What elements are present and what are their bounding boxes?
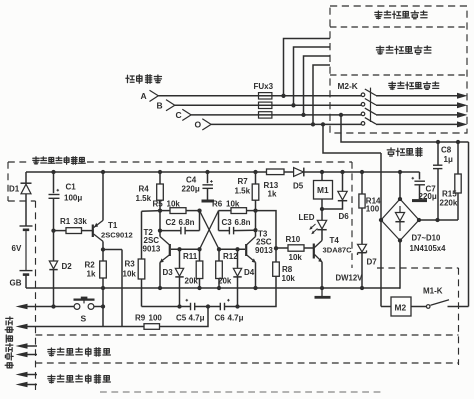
svg-text:C8: C8 xyxy=(441,146,452,155)
label T3 9013 xyxy=(255,246,273,255)
label T1 xyxy=(108,221,118,230)
label R10 value xyxy=(289,253,303,262)
wire feed right edge down xyxy=(468,142,470,307)
label C6 xyxy=(215,313,226,322)
label T1 type xyxy=(101,231,133,240)
label T3 xyxy=(258,230,268,239)
switch M2-K pole O xyxy=(361,118,376,126)
junction dot R6/R7 node xyxy=(253,208,257,212)
node O neutral chevron xyxy=(195,119,212,130)
svg-text:C5: C5 xyxy=(176,313,187,322)
label C8 xyxy=(441,146,452,155)
svg-text:R15: R15 xyxy=(442,190,457,199)
wire riser A to unit2 xyxy=(284,39,331,96)
svg-text:R10: R10 xyxy=(286,235,301,244)
label R11 value xyxy=(185,277,199,286)
label R7 value xyxy=(235,187,251,196)
node A terminal chevron xyxy=(141,90,159,101)
label 6V xyxy=(12,244,22,253)
svg-text:R7: R7 xyxy=(238,177,249,186)
pushbutton S xyxy=(74,297,95,310)
arrow out A xyxy=(457,93,468,99)
label GB xyxy=(10,279,22,288)
unit2 dashed top line xyxy=(36,334,459,336)
svg-text:R5: R5 xyxy=(153,199,164,208)
junction dot T3 base/D4 xyxy=(235,247,239,251)
bridge inner diode xyxy=(395,206,404,231)
capacitor C3 coupling xyxy=(219,211,256,235)
transistor T4 3DA87C xyxy=(314,241,323,289)
arrow out B xyxy=(457,102,468,108)
label R13 value xyxy=(268,190,277,199)
label D1 xyxy=(9,185,20,194)
label C7 xyxy=(426,185,437,194)
svg-text:1k: 1k xyxy=(268,190,277,199)
junction dot M1 top xyxy=(320,170,324,174)
junction dot C1 top xyxy=(51,170,55,174)
label D5 xyxy=(293,181,304,190)
junction dot T1 emitter rail xyxy=(101,170,105,174)
diode D5 series xyxy=(294,168,304,177)
resistor R1 base xyxy=(54,228,93,234)
svg-text:T4: T4 xyxy=(330,236,340,245)
label S xyxy=(81,314,87,324)
junction dot bridge rail xyxy=(398,170,402,174)
label T4 type xyxy=(323,245,353,254)
wire phase A xyxy=(158,95,457,97)
unit1 dashed top edge xyxy=(87,161,352,163)
label C7 value xyxy=(419,192,437,201)
junction dot R15 top xyxy=(456,140,460,144)
wire riser C to unit2 xyxy=(304,56,331,115)
capacitor C2 coupling xyxy=(160,211,200,235)
arrow to unit3 b xyxy=(16,382,38,388)
junction dot D6 top xyxy=(340,170,344,174)
LED emission arrows xyxy=(309,224,317,234)
svg-text:10k: 10k xyxy=(289,253,303,262)
label R14 value xyxy=(366,205,380,214)
switch M2-K pole A xyxy=(361,89,376,97)
svg-text:10k: 10k xyxy=(282,274,296,283)
unit3 dashed bottom line xyxy=(100,391,384,393)
label R8 xyxy=(282,265,293,274)
label C4 value xyxy=(182,185,200,194)
resistor R10 base xyxy=(276,245,314,251)
wire riser O to unit2 xyxy=(313,65,330,124)
wire bridge bottom to ground rail xyxy=(399,241,400,289)
transistor T2 2SC9013 xyxy=(160,237,200,289)
wire M2 to M1-K xyxy=(411,306,426,308)
junction dot D3 bottom xyxy=(177,304,181,308)
svg-text:D3: D3 xyxy=(163,268,174,277)
label second control unit 第二控制单元 xyxy=(376,46,430,54)
divider unit2/unit1 dashed xyxy=(330,74,467,76)
junction dot C xyxy=(301,113,305,117)
junction dot R7 top xyxy=(253,170,257,174)
wire cross-couple N2 to T2 base xyxy=(200,211,219,250)
resistor R14 xyxy=(359,172,365,244)
vertical label timing controller 接时间控制器 xyxy=(5,317,13,368)
label R5 xyxy=(153,199,164,208)
capacitor C8 branch xyxy=(433,142,442,220)
label D2 xyxy=(62,262,73,271)
junction dot T2 base/D3 xyxy=(177,247,181,251)
wire S-column down xyxy=(121,250,123,327)
resistor R12 xyxy=(216,249,223,288)
junction dot C8 bottom xyxy=(435,218,439,222)
label first control unit 第一控制单元 xyxy=(389,82,439,90)
diode D3 xyxy=(175,249,183,306)
transistor T1 2SC9012 xyxy=(93,172,103,250)
label first unit circuit 第一单元电路图 xyxy=(33,157,85,165)
wire O feed vertical xyxy=(380,153,382,307)
label M1-K xyxy=(423,287,443,296)
label T4 xyxy=(330,236,340,245)
label R8 value xyxy=(282,274,296,283)
junction dot C1/R1/D2 node xyxy=(51,228,55,232)
label T2 xyxy=(144,228,154,237)
label R1 xyxy=(60,217,71,226)
wire S right to column xyxy=(94,306,103,308)
label FUx3 xyxy=(254,82,274,91)
switch M2-K pole B xyxy=(361,99,376,107)
wire C5C6 mid xyxy=(195,306,221,308)
junction dot S column xyxy=(101,304,105,308)
fuse FU phase A xyxy=(259,93,272,99)
svg-text:6V: 6V xyxy=(12,244,22,253)
label M2-K xyxy=(338,81,358,91)
svg-text:220k: 220k xyxy=(440,199,458,208)
svg-text:C: C xyxy=(176,110,182,120)
label C1 xyxy=(66,183,77,192)
junction dot R14 top xyxy=(360,170,364,174)
svg-text:6.8n: 6.8n xyxy=(179,218,195,227)
junction dot C2 left node xyxy=(158,228,162,232)
unit boxes dashed left edge xyxy=(35,201,37,390)
svg-text:1k: 1k xyxy=(87,270,96,279)
label R14 xyxy=(366,197,381,206)
junction dot O riser xyxy=(311,122,315,126)
junction dot D4 bottom xyxy=(235,304,239,308)
label R7 xyxy=(238,177,249,186)
svg-text:100: 100 xyxy=(149,313,163,322)
svg-text:R12: R12 xyxy=(223,252,238,261)
capacitor C1 xyxy=(49,172,60,231)
junction dot C feed xyxy=(339,113,343,117)
label R13 xyxy=(264,181,279,190)
label DW12V xyxy=(336,273,364,282)
svg-text:10k: 10k xyxy=(167,199,181,208)
svg-text:D7~D10: D7~D10 xyxy=(412,234,441,243)
relay coil M2 box xyxy=(391,297,411,316)
label LED xyxy=(299,213,315,222)
svg-text:R4: R4 xyxy=(139,185,150,194)
junction dot T1 collector xyxy=(101,247,105,251)
resistor R15 xyxy=(455,142,461,220)
zener diode D7 DW12V xyxy=(358,244,367,288)
fuse FU phase C xyxy=(259,112,272,118)
ground bar below C7 xyxy=(412,199,427,202)
label C6 value xyxy=(228,313,244,322)
right dashed edge lower xyxy=(458,268,460,365)
wire neutral O xyxy=(211,123,457,125)
resistor R13 series xyxy=(267,169,285,175)
resistor R6 xyxy=(219,208,256,214)
svg-text:4.7μ: 4.7μ xyxy=(228,313,244,322)
junction dot rail T3e xyxy=(253,286,257,290)
label R11 xyxy=(183,252,198,261)
label C5 value xyxy=(189,313,205,322)
wire T1 collector to S-column xyxy=(103,249,122,251)
unit1 dashed top-left segment xyxy=(8,161,30,163)
junction dot N4 R12 top xyxy=(217,247,221,251)
control units dashed box xyxy=(330,6,467,133)
wire phase B xyxy=(175,104,458,106)
svg-text:S: S xyxy=(81,314,87,324)
label R10 xyxy=(286,235,301,244)
diode D2 xyxy=(49,231,57,307)
label T2 9013 xyxy=(143,245,161,254)
junction dot R5 right node N1 xyxy=(197,208,201,212)
svg-text:C3: C3 xyxy=(222,218,233,227)
wire bridge AC2 node xyxy=(419,219,458,221)
resistor R2 xyxy=(100,250,107,289)
diode D4 xyxy=(233,249,241,306)
label third unit circuit 第三单元电路图 xyxy=(48,375,110,383)
svg-text:4.7μ: 4.7μ xyxy=(189,313,205,322)
wire R2/S column xyxy=(102,288,104,327)
arrow to unit2 a xyxy=(16,343,38,349)
svg-text:100μ: 100μ xyxy=(64,194,82,203)
svg-text:10k: 10k xyxy=(123,270,137,279)
label C2 xyxy=(166,218,177,227)
svg-text:R2: R2 xyxy=(85,261,96,270)
wire C5C6 right to R8 xyxy=(225,276,277,306)
label R2 xyxy=(85,261,96,270)
unit1 dashed left jog xyxy=(8,200,36,202)
svg-text:D5: D5 xyxy=(293,181,304,190)
svg-text:D1: D1 xyxy=(9,185,20,194)
svg-text:20k: 20k xyxy=(185,277,199,286)
label C3 value xyxy=(235,218,251,227)
resistor R8 xyxy=(273,248,280,276)
junction dot C8 top xyxy=(436,140,440,144)
ground symbol at T4 emitter xyxy=(315,286,331,297)
relay coil M1 box xyxy=(314,172,333,209)
svg-text:20k: 20k xyxy=(218,277,232,286)
label C2 value xyxy=(179,218,195,227)
resistor R5 xyxy=(160,208,200,214)
wire O feed to M2 xyxy=(381,306,391,308)
resistor R7 xyxy=(252,172,259,237)
junction dot C4 top xyxy=(205,170,209,174)
divider unit3/unit2 dashed xyxy=(330,26,467,28)
svg-text:O: O xyxy=(195,120,202,130)
label D7~D10 xyxy=(412,234,441,243)
arrow out O xyxy=(457,121,468,127)
svg-text:33k: 33k xyxy=(74,217,88,226)
svg-text:1N4105x4: 1N4105x4 xyxy=(410,244,447,253)
label R3 xyxy=(125,260,136,269)
resistor R9 xyxy=(144,324,160,330)
svg-text:M1-K: M1-K xyxy=(423,287,443,296)
svg-text:R3: R3 xyxy=(125,260,136,269)
label R15 xyxy=(442,190,457,199)
junction dot bridge bottom xyxy=(398,238,402,242)
LED indicator xyxy=(317,209,326,241)
svg-text:1μ: 1μ xyxy=(444,155,453,164)
wire rail R13-D5 xyxy=(284,171,294,173)
label second unit circuit 第二单元电路图 xyxy=(48,348,110,356)
junction dot R12 bottom xyxy=(217,286,221,290)
label C4 xyxy=(186,175,197,184)
label D7 xyxy=(367,257,378,266)
svg-text:D6: D6 xyxy=(339,212,350,221)
transistor T3 2SC9013 xyxy=(219,237,256,289)
label R4 xyxy=(139,185,150,194)
svg-text:FUx3: FUx3 xyxy=(254,82,274,91)
switch M2-K pole C xyxy=(361,108,376,116)
junction dot bridge top xyxy=(398,197,402,201)
junction dot R4 top xyxy=(158,170,162,174)
switch M1-K xyxy=(426,300,468,309)
capacitor C6 xyxy=(220,299,229,310)
svg-text:DW12V: DW12V xyxy=(336,273,364,282)
svg-text:R6: R6 xyxy=(212,199,223,208)
junction dot R10 left xyxy=(274,246,278,250)
svg-text:100: 100 xyxy=(366,205,380,214)
wire R7node to R10/R8 xyxy=(256,211,277,249)
svg-text:R11: R11 xyxy=(183,252,198,261)
label R3 value xyxy=(123,270,137,279)
junction dot rail T2e xyxy=(158,286,162,290)
label D3 xyxy=(163,268,174,277)
svg-text:C2: C2 xyxy=(166,218,177,227)
svg-text:D2: D2 xyxy=(62,262,73,271)
junction dot D7 bottom xyxy=(360,286,364,290)
wire riser B to unit2 xyxy=(294,47,331,105)
junction dot rail R2 xyxy=(101,286,105,290)
junction dot bridge left xyxy=(379,218,383,222)
svg-text:10k: 10k xyxy=(226,199,240,208)
junction dot D2 bottom xyxy=(51,304,55,308)
svg-text:220μ: 220μ xyxy=(419,192,437,201)
label R15 value xyxy=(440,199,458,208)
svg-text:9013: 9013 xyxy=(255,246,273,255)
svg-text:M1: M1 xyxy=(317,185,329,195)
unit1 dashed left edge xyxy=(7,162,9,201)
wire rail D5-C7 xyxy=(304,171,420,173)
arrow to unit3 a xyxy=(16,372,38,378)
junction dot R9 riser xyxy=(206,304,210,308)
fuse FU phase B xyxy=(259,102,272,108)
wire C feed down/right xyxy=(341,115,469,142)
label C5 xyxy=(176,313,187,322)
capacitor C4 decoupling xyxy=(202,172,213,200)
battery GB 6V cell bars xyxy=(20,226,33,288)
switch M2-K linkage bar xyxy=(370,88,372,122)
label R9 xyxy=(135,313,146,322)
junction dot N3 R11 top xyxy=(197,247,201,251)
bridge rectifier D7-D10 diamond xyxy=(381,199,419,241)
label C3 xyxy=(222,218,233,227)
junction dot C3 right node xyxy=(253,228,257,232)
wire top rail left xyxy=(26,171,267,173)
label D6 xyxy=(339,212,350,221)
label R2 value xyxy=(87,270,96,279)
label T2 2SC xyxy=(144,236,160,245)
label 1N4105x4 xyxy=(410,244,447,253)
svg-text:220μ: 220μ xyxy=(182,185,200,194)
junction dot A xyxy=(281,94,285,98)
junction dot M1 bottom xyxy=(320,207,324,211)
svg-text:R1: R1 xyxy=(60,217,71,226)
capacitor C7 xyxy=(412,172,425,199)
svg-text:C6: C6 xyxy=(215,313,226,322)
label: meter connection text 接电度表 xyxy=(126,75,162,83)
svg-text:A: A xyxy=(141,91,147,101)
label R6 xyxy=(212,199,223,208)
svg-text:D4: D4 xyxy=(244,268,255,277)
diode D6 flyback xyxy=(322,172,347,209)
wire emitter ground rail xyxy=(26,287,400,289)
wire C5C6 line left xyxy=(142,306,191,308)
wire phase C xyxy=(191,114,457,116)
svg-text:T1: T1 xyxy=(108,221,118,230)
node C terminal chevron xyxy=(176,109,192,120)
resistor R4 xyxy=(157,172,164,237)
wire R9 to C5/C6 mid xyxy=(160,307,209,327)
label C8 value 1u xyxy=(444,155,453,164)
resistor R3 xyxy=(138,211,160,307)
svg-text:LED: LED xyxy=(299,213,315,222)
svg-text:B: B xyxy=(157,101,163,111)
label R9 value xyxy=(149,313,163,322)
label R12 value xyxy=(218,277,232,286)
unit1 dashed stub right xyxy=(377,267,459,269)
wire R9 line with left arrow xyxy=(16,324,145,330)
label D4 xyxy=(244,268,255,277)
label R6 value xyxy=(226,199,240,208)
diode D1 xyxy=(21,172,32,226)
junction dot O feed xyxy=(321,122,325,126)
label R5 value xyxy=(167,199,181,208)
svg-text:3DA87C: 3DA87C xyxy=(323,245,353,254)
arrow to unit2 b xyxy=(16,352,38,358)
svg-text:R8: R8 xyxy=(282,265,293,274)
svg-text:D7: D7 xyxy=(367,257,378,266)
arrow out C xyxy=(457,112,468,118)
label R12 xyxy=(223,252,238,261)
svg-text:C4: C4 xyxy=(186,175,197,184)
unit2/unit3 dashed divider xyxy=(36,362,459,364)
label T3 2SC xyxy=(256,238,272,247)
junction dot bridge right xyxy=(417,218,421,222)
svg-text:6.8n: 6.8n xyxy=(235,218,251,227)
junction dot R4/R5/R3 node xyxy=(158,208,162,212)
ground bar below C4 xyxy=(202,200,215,203)
svg-text:GB: GB xyxy=(10,279,22,288)
svg-text:1.5k: 1.5k xyxy=(136,194,152,203)
junction dot R11 bottom xyxy=(197,286,201,290)
label C1 value xyxy=(64,194,82,203)
svg-text:M2-K: M2-K xyxy=(338,81,358,91)
svg-text:R9: R9 xyxy=(135,313,146,322)
label R4 value xyxy=(136,194,152,203)
label third control unit 第三控制单元 xyxy=(375,11,427,19)
capacitor C5 xyxy=(186,299,195,310)
wire S line xyxy=(16,304,75,310)
